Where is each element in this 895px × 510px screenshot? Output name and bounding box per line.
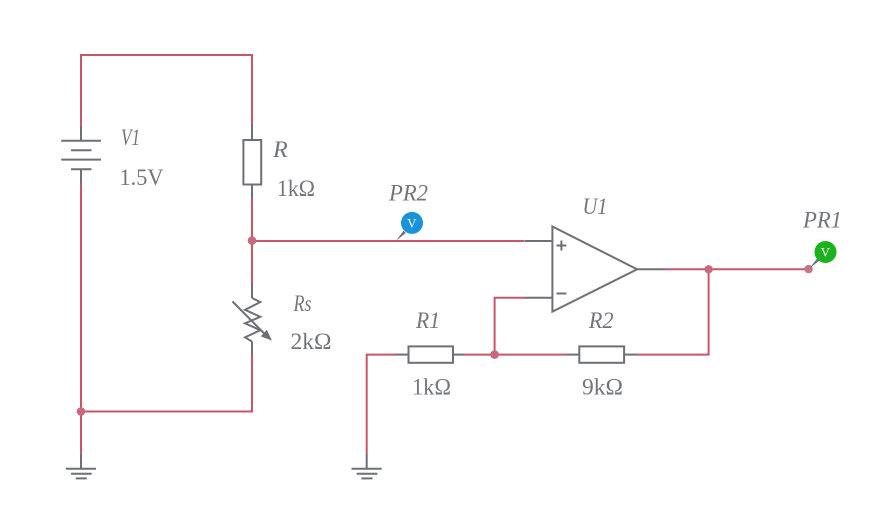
junction dot lower-left bbox=[77, 407, 86, 416]
svg-text:V: V bbox=[821, 245, 831, 260]
wire node B to R2 left bbox=[495, 354, 567, 356]
ground (left) bbox=[66, 454, 96, 478]
wire battery bottom to lower-left corner bbox=[80, 182, 82, 454]
wire node B up to op-amp minus input bbox=[495, 298, 525, 355]
svg-text:1.5V: 1.5V bbox=[120, 165, 164, 190]
svg-text:V1: V1 bbox=[121, 125, 140, 150]
resistor R bbox=[243, 124, 261, 199]
resistor R2 bbox=[567, 346, 637, 362]
battery V1 bbox=[61, 126, 101, 183]
svg-text:9kΩ: 9kΩ bbox=[582, 375, 623, 400]
wire R1 left to ground bbox=[367, 355, 394, 454]
wire endpoint dot bbox=[804, 265, 812, 273]
wire node A to op-amp plus input bbox=[252, 240, 524, 242]
svg-text:R1: R1 bbox=[415, 308, 440, 333]
svg-text:PR1: PR1 bbox=[802, 208, 842, 233]
node C junction dot bbox=[704, 265, 712, 273]
wire R2 right to output node C bbox=[637, 269, 709, 354]
wire top loop V1 to R bbox=[81, 55, 252, 127]
resistor R1 bbox=[394, 346, 465, 362]
svg-text:2kΩ: 2kΩ bbox=[291, 329, 332, 354]
wire R1 right to node B bbox=[465, 354, 495, 356]
svg-text:R2: R2 bbox=[588, 308, 614, 333]
wire node A to Rs top bbox=[251, 241, 253, 284]
wire Rs bottom to lower-left corner and down to ground bbox=[81, 354, 252, 454]
probe PR2 bbox=[396, 231, 406, 241]
ground (middle) bbox=[352, 454, 382, 478]
node B junction dot bbox=[490, 350, 499, 359]
svg-text:V: V bbox=[407, 216, 417, 231]
variable resistor Rs bbox=[233, 283, 264, 355]
node A junction dot bbox=[248, 236, 257, 245]
op-amp U1 bbox=[524, 227, 665, 312]
svg-text:Rs: Rs bbox=[293, 291, 312, 316]
wire R bottom to node A bbox=[251, 198, 253, 241]
svg-text:1kΩ: 1kΩ bbox=[277, 176, 315, 201]
svg-text:U1: U1 bbox=[583, 194, 608, 219]
wire op-amp output to endpoint bbox=[665, 268, 809, 270]
probe PR1 bbox=[810, 259, 820, 269]
Rs arrow head bbox=[261, 330, 272, 341]
svg-text:1kΩ: 1kΩ bbox=[412, 375, 451, 400]
svg-text:PR2: PR2 bbox=[388, 181, 428, 206]
svg-text:R: R bbox=[272, 137, 288, 162]
